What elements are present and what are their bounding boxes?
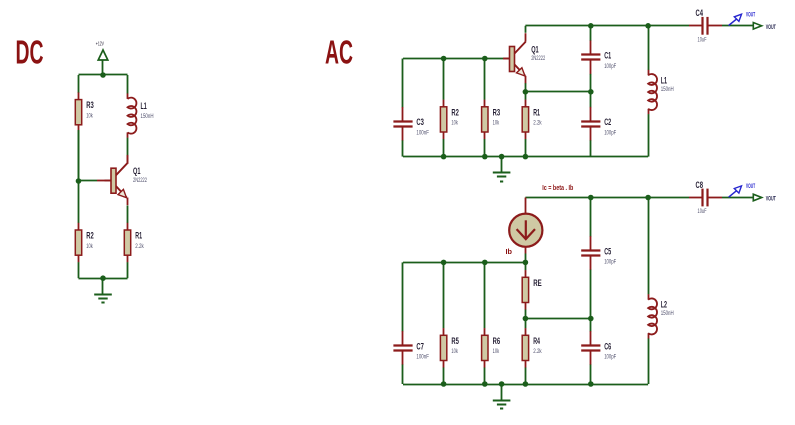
svg-text:C5: C5 (604, 246, 611, 256)
junction R6 bottom (482, 381, 488, 387)
junction gnd node AC1 (499, 154, 505, 160)
wire source to Ib node (525, 254, 527, 263)
current source I1 (Ic = beta.Ib) (509, 214, 542, 247)
svg-text:Ib: Ib (506, 249, 513, 256)
svg-text:C4: C4 (696, 8, 704, 18)
wire top rail AC1 (525, 25, 689, 27)
wire top rail AC2 (525, 197, 689, 199)
svg-text:2.2k: 2.2k (533, 120, 542, 127)
ground (493, 157, 511, 182)
wire emitter rail AC1 (525, 91, 590, 93)
svg-text:10k: 10k (86, 243, 93, 250)
svg-text:150nH: 150nH (661, 310, 674, 317)
label Ib (506, 249, 513, 256)
capacitor C1 100pF (581, 26, 616, 92)
svg-text:VOUT: VOUT (746, 184, 755, 190)
ground (493, 384, 511, 409)
svg-text:R6: R6 (493, 336, 501, 346)
junction L2 top (645, 195, 651, 201)
svg-text:C3: C3 (416, 117, 424, 127)
pin current source bottom lead (525, 247, 527, 254)
inductor L1 150nH (128, 75, 154, 156)
resistor RE (522, 262, 542, 318)
junction R3 bottom (482, 154, 488, 160)
svg-text:Ic = beta . Ib: Ic = beta . Ib (542, 185, 573, 192)
wire bottom rail DC (79, 278, 128, 280)
wire base to Q1 (79, 180, 98, 182)
svg-text:C2: C2 (604, 117, 611, 127)
svg-text:100nF: 100nF (416, 354, 429, 361)
svg-text:R1: R1 (135, 231, 142, 241)
transistor Q1 2N2222 (503, 33, 545, 83)
svg-text:DC: DC (16, 35, 44, 72)
resistor R2 10k (440, 59, 459, 157)
junction RE bottom (523, 316, 529, 322)
svg-text:R3: R3 (86, 100, 94, 110)
svg-text:VOUT: VOUT (766, 196, 776, 203)
wire bottom rail AC2 (403, 384, 648, 386)
svg-text:10k: 10k (493, 348, 500, 355)
svg-text:R5: R5 (451, 336, 459, 346)
svg-text:100pF: 100pF (604, 129, 616, 136)
label Ic = beta . Ib (542, 185, 573, 192)
junction tank mid AC1 (588, 89, 594, 95)
pin current source top lead (525, 198, 527, 214)
svg-text:150nH: 150nH (141, 113, 154, 120)
junction R2 top (441, 56, 447, 62)
wire output wire AC1 (722, 25, 753, 27)
wire mid rail AC2 (525, 318, 590, 320)
junction C5 bottom node (588, 316, 594, 322)
wire collector riser AC1 (525, 26, 527, 33)
svg-text:100pF: 100pF (604, 354, 616, 361)
transistor Q1 2N2222 (105, 155, 148, 205)
resistor R4 2.2k (522, 319, 542, 385)
svg-text:10uF: 10uF (698, 208, 707, 215)
junction L1 top (645, 23, 651, 29)
svg-text:Q1: Q1 (531, 45, 539, 55)
svg-text:Q1: Q1 (133, 166, 141, 176)
svg-text:2N2222: 2N2222 (133, 177, 147, 184)
capacitor C5 100pF (581, 198, 616, 319)
resistor R1 2.2k (522, 92, 542, 157)
capacitor C4 10uF (689, 8, 722, 43)
junction R1 bottom (523, 154, 529, 160)
pin Q1 base lead AC (504, 58, 510, 60)
svg-text:C1: C1 (604, 51, 611, 61)
svg-text:VOUT: VOUT (746, 12, 755, 18)
junction emitter node AC1 (523, 89, 529, 95)
wire Ib rail (403, 262, 525, 264)
svg-text:C6: C6 (604, 341, 611, 351)
resistor R2 10k (75, 181, 94, 278)
wire base node DC vertical (78, 130, 80, 181)
svg-text:150nH: 150nH (661, 86, 674, 93)
svg-text:VOUT: VOUT (766, 24, 776, 31)
junction C6 bottom (588, 381, 594, 387)
svg-text:R2: R2 (451, 107, 459, 117)
capacitor C3 100nF (393, 59, 429, 157)
svg-text:2N2222: 2N2222 (531, 55, 545, 62)
resistor R6 10k (482, 262, 501, 384)
junction +12V node (100, 72, 106, 78)
svg-text:2.2k: 2.2k (533, 348, 542, 355)
svg-text:RE: RE (533, 278, 542, 288)
resistor R1 2.2k (124, 206, 144, 279)
section label DC (16, 35, 44, 72)
svg-text:L2: L2 (661, 300, 667, 310)
svg-text:L1: L1 (661, 75, 667, 85)
wire R3 top lead (78, 75, 80, 93)
svg-text:AC: AC (325, 35, 353, 72)
junction C1 top (588, 23, 594, 29)
wire output wire AC2 (722, 197, 753, 199)
svg-text:10k: 10k (493, 120, 500, 127)
junction R3 top (482, 56, 488, 62)
ground (94, 278, 112, 302)
svg-text:100nF: 100nF (416, 129, 429, 136)
junction gnd node AC2 (499, 381, 505, 387)
capacitor C2 100pF (581, 92, 616, 157)
svg-text:10k: 10k (451, 348, 458, 355)
wire top rail DC (79, 74, 128, 76)
junction Ib node (523, 260, 529, 266)
junction R5 top (441, 260, 447, 266)
svg-text:100pF: 100pF (604, 63, 616, 70)
output pin VOUT (753, 194, 776, 202)
probe VOUT (729, 12, 756, 25)
power +12V (96, 41, 108, 75)
svg-text:R2: R2 (86, 231, 94, 241)
pin Q1 base lead (97, 180, 111, 182)
junction R2 bottom (441, 154, 447, 160)
wire base rail AC1 (403, 58, 504, 60)
junction C5 top (588, 195, 594, 201)
svg-text:L1: L1 (141, 101, 147, 111)
junction R5 bottom (441, 381, 447, 387)
inductor L1 150nH (648, 26, 674, 157)
svg-text:R4: R4 (533, 336, 540, 346)
svg-text:10k: 10k (86, 113, 93, 120)
junction R4 bottom (523, 381, 529, 387)
junction base node DC (76, 178, 82, 184)
pin Q1 collector lead (127, 156, 129, 164)
junction ground node DC (100, 275, 106, 281)
output pin VOUT (753, 23, 776, 31)
inductor L2 150nH (648, 198, 674, 385)
section label AC (325, 35, 353, 72)
svg-text:+12V: +12V (96, 41, 105, 47)
svg-text:C8: C8 (696, 180, 704, 190)
svg-text:R3: R3 (493, 107, 501, 117)
capacitor C8 10uF (689, 180, 722, 215)
resistor R3 10k (482, 59, 501, 157)
resistor R3 10k (75, 92, 94, 181)
wire bottom rail AC1 (403, 156, 648, 158)
capacitor C7 100nF (393, 262, 429, 384)
svg-text:10k: 10k (451, 120, 458, 127)
svg-text:100pF: 100pF (604, 259, 616, 266)
svg-text:2.2k: 2.2k (135, 243, 144, 250)
svg-text:10uF: 10uF (698, 37, 707, 44)
capacitor C6 100pF (581, 319, 616, 385)
probe VOUT (729, 184, 756, 197)
resistor R5 10k (440, 262, 459, 384)
svg-text:C7: C7 (416, 341, 424, 351)
junction R6 top (482, 260, 488, 266)
svg-text:R1: R1 (533, 107, 540, 117)
wire emitter lead AC1 (525, 83, 527, 92)
